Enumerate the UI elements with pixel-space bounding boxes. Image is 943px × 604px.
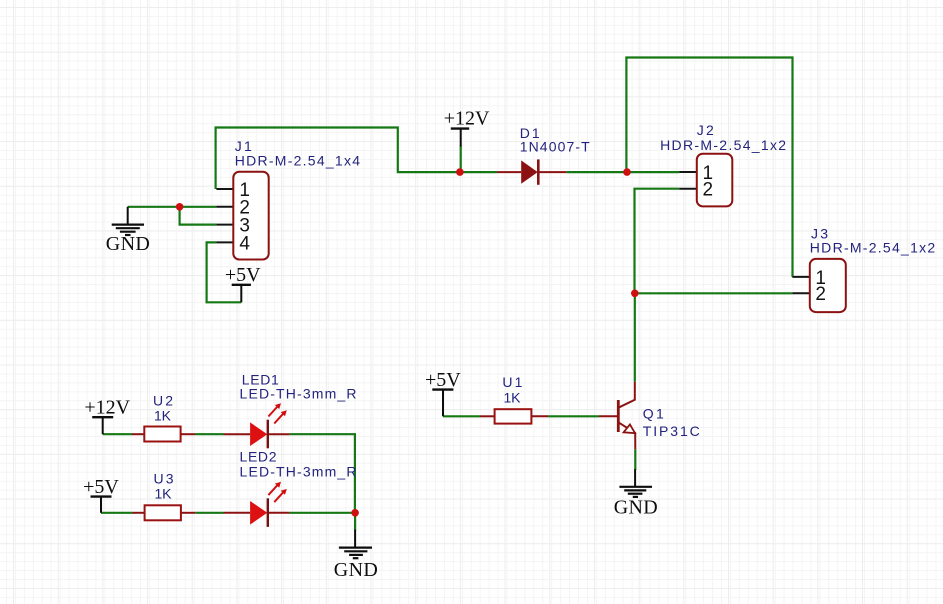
power +5V (at U1)	[425, 369, 461, 417]
wire GND to J1 pin2	[128, 206, 217, 208]
wire U3 right to LED2 anode	[195, 512, 223, 514]
svg-text:1K: 1K	[154, 407, 172, 423]
power +12V (top)	[444, 107, 490, 146]
wire Q1 emitter to GND	[634, 449, 636, 470]
power +12V (at U2)	[84, 396, 130, 434]
wire U2 right to LED1 anode	[195, 433, 224, 435]
wire +5V to U1 left	[443, 415, 480, 417]
node A junction dot (J1 pin2 net)	[176, 203, 184, 211]
wire LED1 cathode to corner and down to node C	[289, 434, 355, 513]
wire +12V node to D1 anode	[460, 171, 497, 173]
svg-text:GND: GND	[614, 497, 658, 519]
ground GND (bottom, under node C)	[334, 530, 378, 581]
svg-text:J1: J1	[235, 138, 252, 154]
LED LED1 LED-TH-3mm_R	[224, 371, 357, 448]
node junction dot left of J2	[623, 168, 631, 176]
svg-text:HDR-M-2.54_1x4: HDR-M-2.54_1x4	[235, 153, 360, 169]
wire LED2 cathode to node C	[289, 512, 355, 514]
power +5V (under J1)	[225, 264, 261, 302]
connector J3 HDR-M-2.54_1x2	[792, 226, 935, 313]
resistor U2 1K	[132, 393, 195, 442]
svg-text:+12V: +12V	[84, 396, 130, 418]
svg-text:HDR-M-2.54_1x2: HDR-M-2.54_1x2	[810, 240, 936, 256]
svg-text:1N4007-T: 1N4007-T	[520, 139, 590, 155]
resistor U3 1K	[133, 470, 196, 520]
ground GND (left of J1)	[106, 207, 150, 255]
wire +5V to U3 left	[101, 512, 133, 514]
svg-text:1K: 1K	[155, 485, 173, 501]
wire top loop from node above D1 to J3 pin1	[626, 58, 792, 277]
LED LED2 LED-TH-3mm_R	[224, 449, 357, 527]
wire D1 cathode to J2 pin1	[566, 171, 679, 173]
svg-text:LED2: LED2	[240, 449, 277, 465]
wire node B to J3 pin2	[635, 292, 793, 294]
svg-text:U2: U2	[153, 393, 173, 409]
node +12V junction dot	[456, 168, 464, 176]
svg-text:U1: U1	[502, 374, 522, 390]
svg-text:+5V: +5V	[83, 476, 119, 498]
wire U1 right to Q1 base	[548, 415, 599, 417]
svg-text:2: 2	[815, 284, 826, 305]
resistor U1 1K	[480, 374, 548, 424]
ground GND (under Q1)	[614, 469, 658, 518]
transistor Q1 TIP31C	[599, 382, 700, 449]
wire +12V power stem lower segment	[460, 146, 462, 173]
svg-text:2: 2	[703, 180, 714, 201]
wire node C down to GND	[354, 513, 356, 531]
wire J1 pin1 to +12V node	[216, 128, 460, 190]
svg-text:GND: GND	[106, 233, 150, 255]
svg-text:HDR-M-2.54_1x2: HDR-M-2.54_1x2	[660, 137, 786, 153]
svg-text:TIP31C: TIP31C	[643, 423, 700, 439]
wire J2 pin2 down to node B	[635, 189, 680, 294]
connector J2 HDR-M-2.54_1x2	[660, 122, 786, 206]
svg-text:LED-TH-3mm_R: LED-TH-3mm_R	[240, 463, 357, 479]
svg-text:U3: U3	[154, 470, 174, 486]
svg-text:+5V: +5V	[425, 369, 461, 391]
wire node A down to J1 pin3	[180, 207, 217, 225]
wire J1 pin4 to +5V	[207, 242, 242, 302]
wire node B down to Q1 collector	[634, 293, 636, 382]
diode D1 1N4007-T	[497, 125, 590, 185]
svg-text:+12V: +12V	[444, 107, 490, 129]
node B junction dot	[631, 290, 639, 298]
node C junction dot	[351, 509, 359, 517]
power +5V (at U3)	[83, 476, 119, 513]
svg-text:1K: 1K	[504, 390, 522, 406]
wire +12V to U2 left	[103, 433, 132, 435]
svg-text:J2: J2	[697, 122, 714, 138]
svg-text:+5V: +5V	[225, 264, 261, 286]
svg-text:GND: GND	[334, 559, 378, 581]
svg-text:4: 4	[239, 233, 250, 254]
svg-text:Q1: Q1	[643, 406, 664, 422]
svg-text:LED-TH-3mm_R: LED-TH-3mm_R	[240, 386, 357, 402]
connector J1 HDR-M-2.54_1x4	[216, 138, 360, 260]
